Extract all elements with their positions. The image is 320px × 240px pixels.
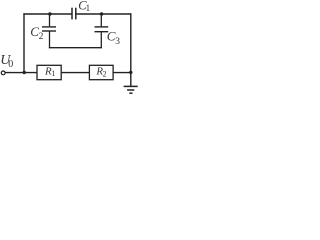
terminal U0 <box>1 71 5 75</box>
node: junction dot at C3 top <box>100 12 103 15</box>
svg-text:3: 3 <box>115 37 120 47</box>
svg-text:0: 0 <box>8 59 13 70</box>
wire: bottom link between C2 and C3 <box>49 47 102 49</box>
resistor R1 <box>37 65 61 79</box>
node: junction dot left <box>23 71 26 74</box>
wire: bottom rail <box>5 72 131 74</box>
capacitor C2 <box>42 14 56 48</box>
wire: top rail left segment <box>23 13 72 15</box>
svg-text:1: 1 <box>51 69 55 78</box>
svg-text:2: 2 <box>103 69 107 78</box>
wire: right rail <box>130 13 132 86</box>
node: junction dot right <box>129 71 132 74</box>
svg-text:1: 1 <box>86 3 91 13</box>
svg-text:2: 2 <box>39 32 44 42</box>
wire: left rail <box>23 13 25 72</box>
capacitor C3 <box>95 14 109 48</box>
wire: top rail right segment <box>76 13 132 15</box>
node: junction dot at C2 top <box>48 12 51 15</box>
resistor R2 <box>89 65 113 79</box>
ground <box>124 86 138 93</box>
capacitor C1 <box>72 8 76 20</box>
